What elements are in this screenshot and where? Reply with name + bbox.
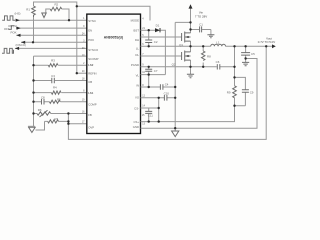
svg-text:(HS): (HS) bbox=[15, 11, 21, 15]
svg-text:0.7V TO 5.0V: 0.7V TO 5.0V bbox=[258, 40, 275, 44]
svg-text:C1: C1 bbox=[199, 22, 203, 26]
svg-text:C9: C9 bbox=[250, 90, 254, 94]
svg-text:BST: BST bbox=[134, 29, 140, 33]
svg-text:FB: FB bbox=[88, 113, 92, 117]
svg-text:D1: D1 bbox=[156, 23, 160, 27]
svg-text:R4: R4 bbox=[53, 85, 57, 89]
svg-text:R3: R3 bbox=[51, 59, 55, 63]
svg-text:OFF: OFF bbox=[4, 27, 10, 31]
svg-text:C11: C11 bbox=[148, 113, 153, 117]
svg-text:C7: C7 bbox=[154, 69, 158, 73]
svg-text:SYNCO: SYNCO bbox=[88, 48, 99, 52]
svg-text:SCOMP: SCOMP bbox=[88, 57, 98, 61]
svg-text:OVP: OVP bbox=[88, 125, 94, 129]
svg-text:R7: R7 bbox=[54, 117, 58, 121]
svg-text:C3: C3 bbox=[51, 74, 55, 78]
svg-text:LS1: LS1 bbox=[88, 91, 94, 95]
svg-text:CS-: CS- bbox=[134, 107, 139, 111]
svg-text:MODE: MODE bbox=[131, 18, 140, 22]
svg-text:C2: C2 bbox=[154, 40, 158, 44]
svg-text:C4: C4 bbox=[165, 82, 169, 86]
svg-text:C6: C6 bbox=[216, 60, 220, 64]
svg-text:LL: LL bbox=[136, 46, 140, 50]
svg-text:(OSCO): (OSCO) bbox=[15, 43, 25, 47]
svg-text:CB: CB bbox=[88, 80, 92, 84]
svg-text:C8: C8 bbox=[41, 95, 45, 99]
svg-text:IN: IN bbox=[136, 83, 139, 87]
svg-text:POK: POK bbox=[10, 30, 16, 34]
svg-text:7 TO 28V: 7 TO 28V bbox=[195, 15, 207, 19]
svg-text:COMP: COMP bbox=[88, 103, 97, 107]
svg-text:SYNC: SYNC bbox=[88, 19, 96, 23]
svg-text:CS+: CS+ bbox=[133, 120, 139, 124]
svg-text:Q1: Q1 bbox=[179, 43, 183, 47]
svg-text:C10: C10 bbox=[164, 92, 170, 96]
svg-text:R1: R1 bbox=[26, 8, 30, 12]
svg-text:VL: VL bbox=[136, 74, 140, 78]
svg-text:POK: POK bbox=[88, 38, 94, 42]
svg-text:R2: R2 bbox=[54, 3, 58, 7]
svg-text:LS2: LS2 bbox=[88, 63, 94, 67]
svg-text:R5: R5 bbox=[57, 97, 61, 101]
svg-text:DH: DH bbox=[135, 38, 139, 42]
svg-text:C5: C5 bbox=[251, 52, 255, 56]
svg-text:AN8005S(U): AN8005S(U) bbox=[104, 36, 123, 40]
svg-text:R8: R8 bbox=[207, 54, 211, 58]
svg-text:R9: R9 bbox=[227, 90, 231, 94]
svg-text:EN: EN bbox=[88, 29, 92, 33]
svg-text:L1: L1 bbox=[216, 41, 220, 45]
svg-text:PGND: PGND bbox=[131, 63, 139, 67]
svg-text:REFIN: REFIN bbox=[88, 72, 96, 76]
svg-text:DL: DL bbox=[135, 53, 139, 57]
svg-text:GND: GND bbox=[133, 125, 139, 129]
svg-text:Q2: Q2 bbox=[172, 62, 176, 66]
svg-text:R6: R6 bbox=[38, 108, 42, 112]
